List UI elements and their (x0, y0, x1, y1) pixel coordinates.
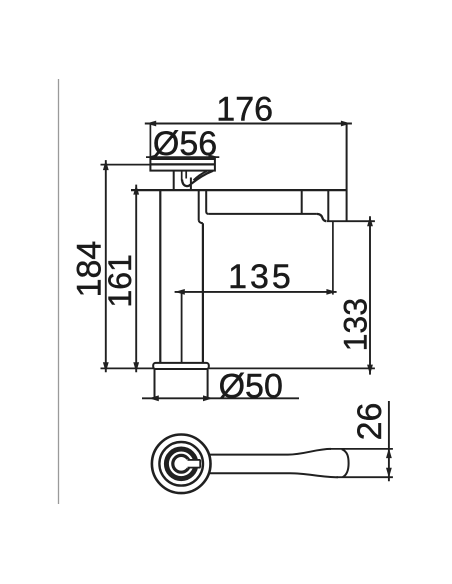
svg-text:26: 26 (351, 403, 389, 441)
svg-text:176: 176 (216, 90, 273, 128)
svg-text:Ø56: Ø56 (153, 125, 217, 163)
svg-text:133: 133 (338, 298, 374, 351)
svg-text:161: 161 (102, 254, 138, 307)
svg-text:Ø50: Ø50 (219, 368, 283, 406)
svg-text:135: 135 (228, 258, 294, 296)
